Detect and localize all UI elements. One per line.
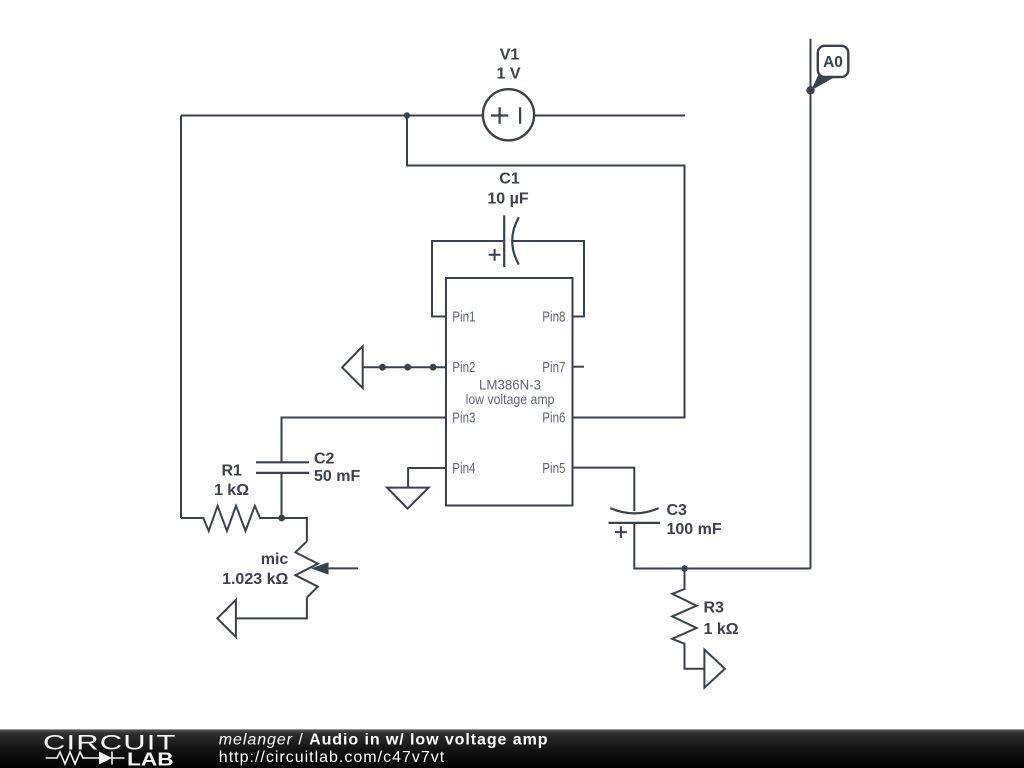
svg-text:Pin2: Pin2: [452, 360, 475, 376]
capacitor C2: [256, 462, 309, 473]
label R3 1 kOhm: [704, 600, 739, 639]
potentiometer mic: [295, 541, 358, 597]
svg-text:Pin3: Pin3: [452, 411, 475, 427]
node junction dot at V1 left rail: [404, 112, 410, 118]
label C2 50 mF: [314, 450, 360, 485]
pin labels left: [452, 310, 475, 478]
ground at R3 (right pointing): [704, 650, 725, 688]
logo resistor diode glyph: [46, 752, 125, 765]
wire Pin7 stub: [573, 366, 585, 368]
svg-text:melanger / Audio in w/ low vol: melanger / Audio in w/ low voltage amp: [219, 732, 549, 749]
label R1 1 kOhm: [214, 462, 249, 499]
svg-text:C3: C3: [667, 502, 688, 519]
wire from junction down and across to Pin6: [407, 116, 685, 418]
label C1 10 uF: [487, 170, 528, 207]
node dots on Pin2 wire: [379, 364, 437, 371]
wire Pin5 down to C3: [573, 468, 635, 511]
ground at Pin4 (down pointing): [387, 488, 429, 509]
svg-text:Pin8: Pin8: [542, 310, 565, 326]
voltage source V1: [483, 89, 534, 140]
ground at Pin2 (left pointing): [342, 346, 363, 388]
label V1 1 V: [496, 47, 520, 83]
wire Pin3 to C2: [282, 418, 447, 463]
capacitor C1 polarized: [489, 215, 519, 267]
wire left rail down to R1: [180, 116, 182, 519]
svg-text:50 mF: 50 mF: [314, 468, 360, 485]
capacitor C3 polarized: [609, 508, 661, 538]
label C3 100 mF: [667, 502, 722, 538]
svg-text:LM386N-3: LM386N-3: [479, 376, 541, 392]
wire Pin2 to ground: [363, 366, 446, 368]
svg-text:low voltage amp: low voltage amp: [466, 391, 555, 407]
svg-text:V1: V1: [500, 47, 520, 64]
svg-text:Pin6: Pin6: [542, 411, 565, 427]
svg-text:C1: C1: [499, 170, 520, 187]
wire C3 bottom across to A0 riser: [634, 523, 810, 569]
wire junction to potentiometer: [282, 518, 307, 541]
wire pot bottom to ground: [236, 598, 307, 619]
node A0 balloon: [818, 46, 849, 77]
svg-text:C2: C2: [314, 450, 335, 467]
wire Pin1 loop left side up to C1: [432, 241, 503, 317]
wire C1 right side down to Pin8: [513, 241, 584, 317]
node A0 balloon tail: [811, 74, 834, 91]
svg-text:1 kΩ: 1 kΩ: [704, 621, 739, 638]
svg-text:1 kΩ: 1 kΩ: [214, 482, 249, 499]
svg-text:A0: A0: [823, 54, 843, 71]
svg-text:http://circuitlab.com/c47v7vt: http://circuitlab.com/c47v7vt: [219, 749, 445, 766]
wire C2 to junction: [281, 473, 283, 518]
svg-text:Pin5: Pin5: [542, 461, 565, 477]
node A0 anchor dot: [806, 86, 814, 94]
node junction dot above R3: [681, 565, 687, 571]
svg-text:mic: mic: [261, 551, 289, 568]
chip name text: [466, 376, 555, 407]
svg-text:1.023 kΩ: 1.023 kΩ: [222, 571, 288, 588]
svg-text:R1: R1: [221, 462, 242, 479]
pin labels right: [542, 310, 565, 478]
ground at pot (left pointing): [217, 600, 236, 637]
label mic 1.023 kOhm: [222, 551, 288, 588]
svg-text:Pin7: Pin7: [542, 360, 565, 376]
wire top rail from left corner through V1 to open end: [181, 115, 685, 117]
wire Pin4 to ground: [408, 468, 446, 488]
op-amp chip U1 LM386N-3 body: [446, 278, 573, 506]
resistor R1: [181, 506, 282, 531]
resistor R3: [672, 569, 704, 669]
svg-text:R3: R3: [704, 600, 725, 617]
wire A0 riser: [810, 39, 812, 569]
svg-text:100 mF: 100 mF: [667, 521, 722, 538]
svg-text:Pin1: Pin1: [452, 310, 475, 326]
svg-text:Pin4: Pin4: [452, 461, 475, 477]
svg-text:LAB: LAB: [127, 750, 174, 768]
svg-text:1 V: 1 V: [496, 65, 520, 82]
node junction dot R1 C2 mic: [278, 515, 285, 522]
svg-text:10 µF: 10 µF: [487, 191, 528, 208]
